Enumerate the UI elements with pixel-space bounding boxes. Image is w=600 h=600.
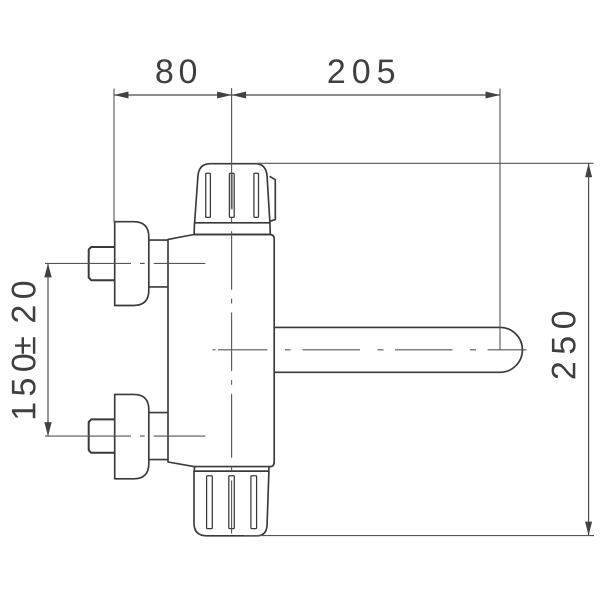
arrow 205 right [486,92,501,99]
horizontal centerline of spout [213,349,527,351]
dimension line 250 [588,163,590,535]
spout (horizontal tube with rounded tip) [274,327,522,372]
horizontal centerline top connection [45,262,205,264]
bottom knob slot 2 [229,476,235,529]
top knob side tab [270,176,276,221]
dimension line 150±20 [47,263,49,436]
arrow 80 left [114,92,129,99]
vertical centerline of body (also extension line of dim 205/80) [231,88,233,541]
extension line left (wall face) for dim 80 [113,89,115,223]
top knob slot 3 [254,173,259,217]
faucet body [168,235,274,467]
neck top connection (cover tube between escutcheon and body) [149,240,169,287]
arrow 80 right [217,92,232,99]
centerline showing through slot 2 [231,174,233,210]
escutcheon top (wall flange) [115,222,149,306]
dimension text 150±20 [12,282,36,419]
dimension lines [48,95,589,536]
extension lines [114,89,594,536]
extension line top (knob top) for dim 250 [256,162,594,164]
top knob dome [195,164,270,223]
top knob skirt [194,223,270,235]
top knob slot 2 [229,173,234,217]
arrowheads [44,92,592,536]
arrow 250 top [585,163,592,177]
bottom knob slot 3 [251,476,257,529]
centerlines (dash-dot) [45,88,527,541]
top knob slot 1 [206,173,211,217]
arrow 150±20 bottom [44,422,51,436]
bottom knob dome [194,471,269,536]
arrow 150±20 top [44,263,51,277]
arrow 205 left [232,92,247,99]
dimension text 80 [156,59,196,83]
hex nut bottom (wall union nut) [89,419,115,452]
dimension line 80 and 205 [114,94,500,96]
arrow 250 bottom [585,522,592,536]
escutcheon bottom (wall flange) [115,394,149,478]
dimension text 250 [552,312,576,379]
extension line right (spout tip) for dim 205 [499,89,501,351]
dimension text 205 [329,59,395,83]
horizontal centerline bottom connection [45,435,205,437]
hex nut top (wall union nut) [89,247,115,280]
neck bottom connection [149,413,169,460]
bottom knob skirt [194,467,269,472]
extension line bottom (knob bottom) for dim 250 [244,535,594,537]
bottom knob slot 1 [207,476,213,529]
